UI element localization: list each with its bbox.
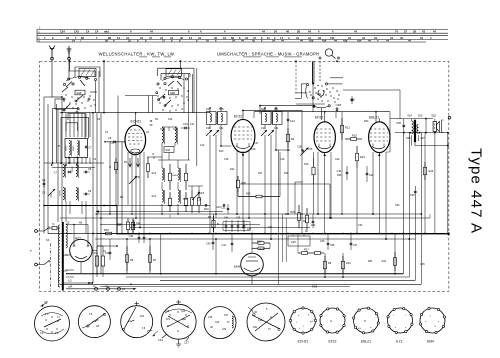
svg-text:S13: S13 (152, 172, 157, 175)
capacitor C40 (206, 234, 214, 250)
svg-text:C6: C6 (108, 136, 112, 140)
coils S11 S12 (147, 122, 190, 160)
oscillator coil box S2 (57, 139, 92, 164)
svg-text:C14: C14 (290, 119, 295, 123)
output transformer S24/S26 (390, 115, 449, 147)
svg-text:R28: R28 (312, 285, 318, 289)
caption underlines (139, 56, 302, 58)
svg-text:S31: S31 (253, 326, 258, 329)
svg-text:R29: R29 (290, 211, 295, 214)
svg-text:o33: o33 (64, 254, 69, 257)
parts table row 3 text (72, 39, 411, 43)
AVC return wire y184 (240, 184, 331, 219)
socket A21 (387, 307, 413, 343)
rotary switch S8 (295, 78, 343, 112)
bandswitch routing wires (44, 104, 104, 168)
svg-text:30000: 30000 (60, 190, 62, 196)
svg-text:D: D (53, 222, 55, 226)
mains switch S3 dash-dot link (46, 238, 51, 291)
svg-text:LS: LS (122, 288, 125, 291)
svg-text:428: 428 (343, 39, 348, 43)
resistor R12 (118, 218, 135, 234)
svg-text:S10: S10 (168, 118, 173, 121)
svg-text:C32: C32 (311, 224, 316, 227)
earth/antenna A2 (67, 46, 72, 60)
svg-text:S27: S27 (420, 137, 425, 140)
svg-text:R30: R30 (242, 182, 247, 185)
svg-text:S25: S25 (406, 137, 411, 140)
svg-text:EF22: EF22 (329, 339, 337, 343)
svg-text:S14: S14 (152, 195, 157, 198)
antenna A1 (49, 46, 55, 60)
adjust diagram 4 C16/C17 (152, 300, 196, 347)
svg-text:C4: C4 (95, 30, 99, 34)
svg-text:O: O (364, 320, 366, 323)
svg-text:C43: C43 (136, 222, 141, 225)
misc label sprinkle (93, 118, 400, 263)
svg-text:C43: C43 (74, 30, 79, 34)
svg-text:EM4: EM4 (427, 339, 434, 343)
resistor R21 (340, 112, 350, 214)
resistor R2 (109, 142, 117, 206)
tube EBL21 (369, 116, 390, 240)
socket EM4 (419, 307, 445, 343)
resistor R26 (410, 133, 434, 266)
IF transformer 2 (261, 108, 290, 239)
svg-text:G: G (330, 320, 332, 323)
AVC line with arrow (96, 210, 224, 212)
svg-text:C48: C48 (129, 235, 134, 238)
resistor R8 (208, 214, 219, 274)
svg-text:S24: S24 (407, 115, 412, 118)
svg-text:434: 434 (322, 39, 327, 43)
capacitor C10 (110, 142, 115, 145)
svg-text:C13: C13 (208, 317, 213, 319)
capacitor C41 (222, 234, 234, 252)
svg-text:C18: C18 (337, 170, 342, 173)
svg-text:C19: C19 (280, 158, 285, 161)
resistor R6b (125, 239, 133, 274)
svg-text:C31: C31 (221, 207, 226, 210)
svg-text:C13: C13 (183, 122, 188, 126)
power transformer (58, 221, 88, 290)
svg-text:S17: S17 (224, 315, 229, 317)
tube EF22 second (290, 108, 335, 234)
svg-text:C15: C15 (199, 191, 205, 195)
resistor R9 (323, 253, 331, 277)
horizontal bus wires (48, 112, 450, 240)
svg-text:C27: C27 (268, 226, 273, 229)
svg-text:ECH21: ECH21 (298, 339, 309, 343)
svg-text:4D: 4D (150, 125, 153, 127)
capacitor C14 (286, 112, 295, 214)
vertical drop x160 (161, 234, 216, 274)
wave switch S1 block (52, 60, 105, 137)
svg-text:R23: R23 (352, 134, 357, 138)
osc padder cluster 2 (183, 186, 209, 213)
mains terminals (28, 227, 49, 266)
adjust diagram 6 S30/S31 (247, 303, 285, 341)
svg-text:C44: C44 (224, 218, 229, 220)
svg-text:C41: C41 (222, 244, 227, 247)
fuse D (50, 222, 58, 230)
smoothing resistor R32 (97, 228, 120, 235)
electrolytic cluster C44-C47 (223, 218, 252, 233)
adjust diagram 3 (121, 302, 153, 338)
svg-text:Type 447 A: Type 447 A (468, 148, 485, 234)
svg-text:R23: R23 (364, 120, 369, 123)
svg-text:R15: R15 (246, 193, 251, 196)
svg-text:S6B: S6B (170, 91, 175, 95)
svg-text:R12: R12 (118, 223, 123, 226)
svg-text:C13: C13 (165, 311, 170, 313)
svg-text:R1: R1 (124, 160, 128, 164)
svg-text:C16: C16 (224, 158, 229, 161)
svg-text:C45: C45 (236, 218, 241, 220)
svg-text:S3: S3 (46, 238, 50, 242)
junction dots extra (43, 96, 422, 285)
svg-text:4B: 4B (79, 221, 82, 224)
svg-text:C14: C14 (181, 311, 186, 313)
svg-text:R18: R18 (284, 172, 289, 175)
svg-text:4B: 4B (150, 121, 153, 123)
adjust diagram 5 (204, 307, 236, 339)
tube EF22 first (216, 106, 314, 228)
svg-text:C15: C15 (308, 148, 313, 151)
svg-text:R11: R11 (382, 260, 387, 263)
capacitor C18 (337, 166, 349, 180)
rectifier tube AZ1 (70, 224, 118, 273)
svg-text:EBL21: EBL21 (361, 339, 371, 343)
adjust diagram pot S9/S10 (35, 300, 70, 341)
svg-text:C4: C4 (86, 30, 90, 34)
svg-text:C35: C35 (410, 194, 415, 197)
svg-text:C37: C37 (353, 244, 358, 247)
svg-text:434: 434 (357, 39, 362, 43)
bottom nested return wires (44, 133, 448, 289)
resistor R11 (382, 234, 397, 274)
svg-text:mfd: mfd (104, 30, 109, 34)
capacitor C39 box (288, 234, 310, 247)
filter capacitors C31 C33 (94, 246, 110, 277)
svg-text:C5: C5 (136, 175, 140, 179)
svg-text:C40: C40 (206, 243, 211, 246)
junction dots on buses (92, 213, 426, 240)
loudspeaker (433, 119, 443, 133)
svg-text:C22: C22 (335, 158, 340, 161)
capacitors C38 C37 (327, 234, 358, 251)
svg-text:kG: kG (358, 328, 361, 330)
wave switch S6 block (125, 60, 197, 166)
svg-text:C25: C25 (320, 240, 325, 243)
svg-text:R31: R31 (368, 260, 373, 263)
gram shielded cable (312, 61, 320, 84)
socket EBL21 (353, 307, 380, 343)
svg-text:C39: C39 (291, 241, 296, 244)
plate supply wire y111.7 (254, 60, 390, 121)
socket EF22 (320, 308, 346, 344)
capacitor C26 (197, 199, 207, 207)
left return wires (44, 97, 90, 234)
svg-text:S1B: S1B (77, 91, 82, 95)
svg-text:30000: 30000 (73, 146, 75, 151)
svg-text:A 21: A 21 (396, 339, 403, 343)
svg-text:30000: 30000 (72, 166, 74, 172)
svg-text:R13: R13 (219, 150, 224, 153)
capacitor C42 (366, 166, 374, 182)
svg-text:o3A: o3A (68, 285, 73, 288)
svg-text:R10: R10 (304, 163, 309, 166)
svg-text:C22: C22 (215, 322, 220, 324)
svg-text:C: C (52, 36, 54, 40)
resistor R23 (345, 134, 362, 141)
resistor R10b (341, 253, 351, 277)
svg-text:R25: R25 (337, 174, 342, 177)
svg-text:C33: C33 (395, 204, 400, 207)
svg-text:R16: R16 (204, 208, 209, 211)
parts table row 1 text (60, 30, 436, 34)
svg-text:C28: C28 (336, 103, 342, 107)
svg-text:+: + (246, 222, 248, 226)
svg-text:S16: S16 (183, 199, 188, 201)
svg-text:2C2: 2C2 (140, 316, 145, 318)
capacitor C31 label (221, 204, 229, 214)
svg-text:EF22: EF22 (234, 115, 242, 119)
svg-text:C23: C23 (222, 329, 227, 331)
parts table row 2 text (44, 36, 432, 40)
svg-text:EM4: EM4 (234, 265, 241, 269)
svg-text:R21: R21 (345, 126, 350, 130)
svg-text:R24: R24 (360, 155, 365, 159)
svg-text:C11: C11 (190, 123, 195, 126)
svg-text:C17: C17 (254, 142, 259, 145)
ECH21 cathode arrows (129, 158, 140, 167)
svg-text:EF22: EF22 (315, 116, 323, 120)
svg-text:30000: 30000 (66, 146, 68, 151)
svg-text:R26: R26 (429, 169, 434, 173)
heater wires with arrows (62, 280, 137, 291)
resistor R7 (148, 239, 156, 273)
capacitor C48 (129, 234, 146, 244)
svg-text:WELLENSCHALTER : KW, TW, LW: WELLENSCHALTER : KW, TW, LW. (99, 52, 176, 57)
gram pickup (319, 49, 341, 60)
socket ECH21 (289, 307, 316, 343)
magic eye EM4 (234, 234, 270, 285)
adjust diagram 2 (78, 306, 110, 338)
svg-text:R27: R27 (304, 249, 309, 252)
svg-text:C24: C24 (274, 127, 279, 130)
resistor R24 (355, 146, 365, 234)
svg-text:AZ1: AZ1 (75, 236, 81, 240)
svg-text:gG: gG (310, 321, 313, 323)
chassis dashed border (40, 61, 449, 291)
tuning coil set S04/S06 (42, 165, 92, 202)
IF transformer 1 (206, 108, 227, 234)
output stage drops (412, 133, 435, 234)
svg-text:C26: C26 (197, 199, 202, 202)
svg-text:C24: C24 (60, 30, 65, 34)
svg-text:R17: R17 (258, 172, 263, 175)
svg-text:EBL21: EBL21 (369, 116, 379, 120)
capacitor C36 (396, 119, 405, 133)
external speaker terminal (448, 116, 451, 119)
svg-text:C36: C36 (396, 121, 401, 125)
gram dashed drop wires (295, 60, 297, 93)
svg-text:C23: C23 (261, 127, 266, 130)
antenna lead wire (52, 60, 69, 97)
parts table rules (37, 28, 448, 43)
svg-text:30000: 30000 (172, 175, 179, 177)
svg-text:R10: R10 (346, 262, 351, 265)
svg-text:S28: S28 (431, 115, 436, 118)
svg-text:C17: C17 (184, 341, 189, 345)
svg-text:C42: C42 (369, 174, 374, 177)
svg-text:4C: 4C (400, 36, 403, 40)
svg-text:ECH21: ECH21 (131, 120, 142, 124)
svg-text:LB: LB (210, 327, 213, 329)
svg-text:C21: C21 (219, 127, 224, 130)
vertical drop x278 (279, 150, 287, 284)
svg-text:C20: C20 (206, 127, 211, 130)
svg-text:C34: C34 (358, 224, 363, 227)
svg-text:UMSCHALTER : SPRACHE - MUSIK -: UMSCHALTER : SPRACHE - MUSIK - GRAMOPH (217, 52, 319, 57)
svg-text:R22: R22 (317, 93, 322, 96)
svg-text:C12: C12 (200, 144, 205, 147)
svg-text:S26: S26 (418, 115, 423, 118)
wire grid mid-right (296, 84, 400, 119)
svg-text:C31: C31 (94, 253, 99, 255)
svg-text:C16: C16 (251, 148, 256, 151)
padder coil cluster (129, 160, 205, 218)
svg-text:C1B: C1B (297, 146, 302, 149)
svg-text:S04: S04 (166, 148, 171, 152)
capacitor C1 (103, 239, 111, 260)
mid bus verticals (93, 96, 122, 284)
svg-text:C36: C36 (420, 263, 425, 266)
trimmer C12 near EF22#2 (297, 146, 309, 156)
tube ECH21 (104, 113, 156, 234)
svg-text:C38: C38 (330, 244, 335, 247)
resistors R27 (298, 234, 324, 255)
svg-text:6,3: 6,3 (68, 280, 72, 283)
svg-text:R: R (109, 166, 111, 169)
resistor R36 + capacitor C43 (117, 218, 141, 234)
speaker field wires (386, 119, 390, 152)
svg-text:428: 428 (309, 39, 314, 43)
svg-text:R32: R32 (104, 228, 109, 232)
svg-text:C10: C10 (110, 142, 115, 145)
svg-text:C16: C16 (158, 338, 163, 342)
svg-text:R14: R14 (230, 168, 235, 171)
